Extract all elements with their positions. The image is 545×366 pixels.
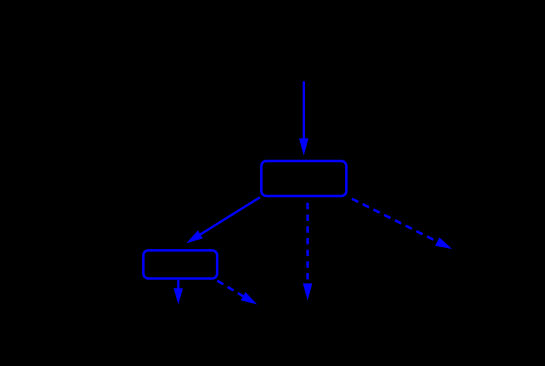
wire edge B: solid diagonal arrow from node B1 to node B2 [186, 197, 260, 243]
wire edge C: dashed vertical arrow from node B1 downward [303, 203, 312, 301]
node B1 (upper rounded box) [261, 161, 346, 196]
node B2 (lower rounded box) [143, 250, 217, 278]
wire edge A: solid vertical arrow into node B1 [299, 81, 308, 155]
wire edge D: dashed diagonal arrow from node B1 to lower right [348, 197, 453, 250]
wire edge F: dashed diagonal arrow from node B2 to lower right [217, 281, 257, 305]
wire edge E: solid vertical arrow from node B2 downward [174, 280, 183, 304]
